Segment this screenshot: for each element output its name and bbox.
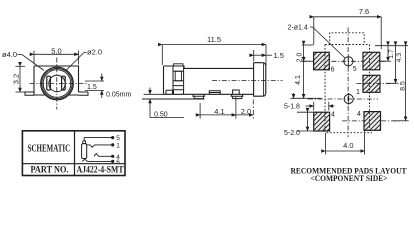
dimension 4.1 / 2.0 (tab spacing) xyxy=(200,97,253,119)
svg-text:ø2.0: ø2.0 xyxy=(87,48,102,57)
hole 2 centerline xyxy=(308,98,378,100)
svg-text:5-1.8: 5-1.8 xyxy=(284,104,300,111)
front view outer flange circle ø4.0 xyxy=(41,67,74,100)
side view middle tab B xyxy=(209,91,220,95)
svg-text:4.0: 4.0 xyxy=(343,141,353,150)
svg-text:2.0: 2.0 xyxy=(241,107,251,116)
svg-text:4.3: 4.3 xyxy=(396,53,403,63)
svg-text:1: 1 xyxy=(356,89,360,96)
pad 5 (top-right) xyxy=(363,52,380,70)
front view right contact in hole xyxy=(62,76,66,90)
side view tower top cap xyxy=(174,64,184,66)
front view left mounting foot xyxy=(25,92,34,95)
svg-text:SCHEMATIC: SCHEMATIC xyxy=(28,144,71,155)
dimension 3.2 (front height) xyxy=(12,66,26,92)
svg-text:ø4.0: ø4.0 xyxy=(2,50,17,59)
svg-text:PART NO.: PART NO. xyxy=(31,165,69,175)
svg-text:6: 6 xyxy=(116,159,120,166)
dimension 5-2.0 (pad height) xyxy=(284,112,314,137)
dimension 0.50 (standoff side view) xyxy=(150,88,184,119)
side view SMT tab A xyxy=(192,94,205,98)
side view body bottom extension left xyxy=(144,93,164,95)
vertical centerline pads layout xyxy=(347,28,349,138)
side view horizontal centerline xyxy=(212,80,283,82)
svg-text:5: 5 xyxy=(353,66,357,73)
svg-text:2-ø1.4: 2-ø1.4 xyxy=(288,25,308,32)
front view ring 3 xyxy=(43,70,71,98)
pad 1 (middle-right) xyxy=(363,75,380,92)
hole 2 (ø1.4) xyxy=(344,94,353,103)
front view left contact in hole xyxy=(47,76,51,90)
side view barrel xyxy=(254,63,266,96)
schematic node pin 1 xyxy=(111,143,114,146)
dimension 1.5 (front right side) xyxy=(85,74,104,99)
svg-text:5.0: 5.0 xyxy=(51,46,61,55)
top pads row centerline xyxy=(302,60,386,62)
dashed connector at pads bottom xyxy=(327,132,373,134)
table outer border xyxy=(22,131,125,176)
label 2-ø1.4 with leader to hole xyxy=(288,25,346,59)
pad 4 left (bottom-left) xyxy=(314,112,330,131)
dimension 1.7 (right) xyxy=(380,46,395,62)
pad 6 (top-left) xyxy=(314,52,330,70)
svg-text:7.6: 7.6 xyxy=(359,7,369,16)
dashed body outline (component projection) xyxy=(325,45,370,133)
svg-text:0.05mm: 0.05mm xyxy=(106,92,131,99)
svg-text:1: 1 xyxy=(116,143,120,150)
pad 4 right (bottom-right) xyxy=(364,112,381,131)
table row divider xyxy=(22,163,125,165)
front view right mounting foot xyxy=(79,92,89,95)
schematic wire pin 5 xyxy=(84,138,113,141)
dimension 4.3 (right) xyxy=(386,46,403,84)
svg-text:<COMPONENT SIDE>: <COMPONENT SIDE> xyxy=(311,174,388,183)
front view ring 2 xyxy=(42,68,72,98)
schematic node pin 5 xyxy=(111,136,114,139)
side view SMT tab C xyxy=(231,90,244,99)
schematic wire pin 1 with contact xyxy=(87,145,113,147)
svg-text:3.2: 3.2 xyxy=(12,74,21,84)
side view left feet detail xyxy=(166,90,184,95)
pad 1 centerline xyxy=(357,83,397,85)
svg-text:4.1: 4.1 xyxy=(214,107,224,116)
table column divider xyxy=(74,131,76,176)
side view tower inner contact xyxy=(175,71,181,81)
dimension 4.0 (bottom gap) xyxy=(326,131,365,155)
dimension 8.5 (right) xyxy=(393,46,409,121)
schematic node pin 4 xyxy=(111,155,114,158)
svg-text:1.5: 1.5 xyxy=(87,84,97,91)
side view body outline xyxy=(164,66,254,94)
dimension 5.0 (front width) xyxy=(34,46,79,64)
svg-text:11.5: 11.5 xyxy=(207,35,221,44)
side view contact tower xyxy=(173,66,184,92)
hole 1 (ø1.4) xyxy=(344,57,353,66)
schematic wire pin 4 with contact xyxy=(94,154,113,157)
schematic jack plug symbol xyxy=(83,141,86,144)
svg-text:AJ422-4-SMT: AJ422-4-SMT xyxy=(77,165,124,175)
svg-text:8.5: 8.5 xyxy=(399,81,406,91)
side view barrel end face line xyxy=(263,63,265,95)
schematic wire pin 6 with contact xyxy=(82,159,113,161)
dimension 4.1 (left) xyxy=(290,61,321,98)
dimension 11.5 (side overall) xyxy=(162,35,266,66)
svg-text:1.5: 1.5 xyxy=(274,51,284,60)
svg-text:6: 6 xyxy=(331,66,335,73)
bottom pads centerline xyxy=(342,120,400,122)
svg-text:5: 5 xyxy=(116,135,120,142)
svg-text:4.1: 4.1 xyxy=(295,75,302,85)
schematic node pin 6 xyxy=(111,160,114,163)
svg-text:0.50: 0.50 xyxy=(154,111,168,118)
side view seating plane line xyxy=(142,98,205,100)
front view inner hole ring ø2.0 xyxy=(49,75,65,91)
front view body outline xyxy=(34,66,79,95)
svg-text:2.0: 2.0 xyxy=(297,53,304,63)
svg-text:1.7: 1.7 xyxy=(388,49,395,59)
dimension 5-1.8 (pad width) xyxy=(284,102,335,111)
svg-text:4: 4 xyxy=(357,111,361,118)
front view horizontal centerline xyxy=(30,83,87,85)
dimension 2.0 (left, top) xyxy=(297,45,314,62)
label ø2.0 with leader xyxy=(65,48,102,72)
dimension 7.6 (pads overall width) xyxy=(314,7,381,49)
dimension 1.5 (barrel length) xyxy=(254,50,284,62)
label ø4.0 with leader xyxy=(2,50,44,71)
svg-text:4: 4 xyxy=(331,112,335,119)
right dims top reference tick xyxy=(375,45,408,47)
front view vertical centerline xyxy=(56,58,58,110)
dashed barrel outline (component projection) xyxy=(330,33,365,45)
